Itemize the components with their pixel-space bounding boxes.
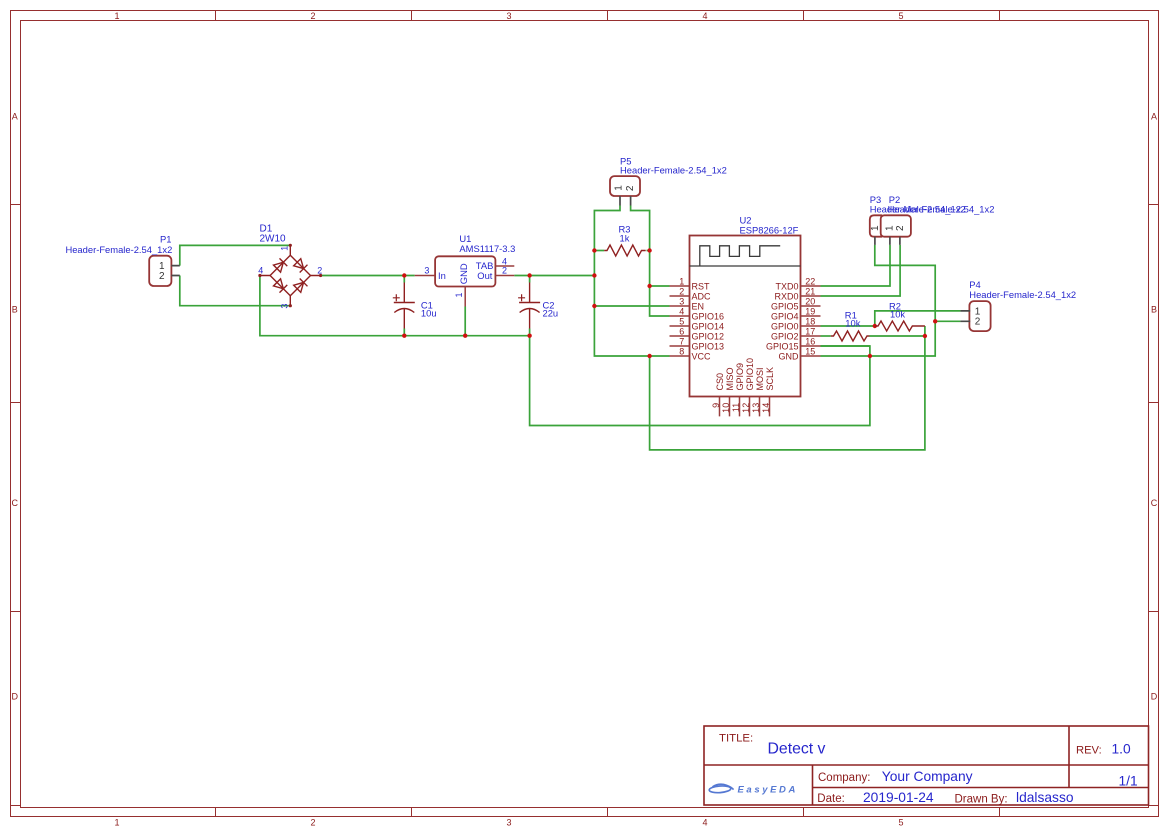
svg-text:In: In [438, 270, 446, 281]
svg-text:Out: Out [477, 270, 493, 281]
svg-text:2: 2 [502, 266, 507, 276]
svg-text:P1: P1 [160, 234, 171, 245]
wire P5.2 vertical to RST and GPIO16 [631, 206, 670, 317]
svg-text:MOSI: MOSI [755, 367, 765, 390]
junction 3V3 vertical / Out [592, 273, 596, 277]
wire V- rail: D1.4 down, bottom rail, to GND net [260, 276, 870, 426]
svg-text:16: 16 [805, 336, 815, 346]
wire P1.1 to D1.1 (AC1) [180, 245, 290, 265]
svg-text:18: 18 [805, 316, 815, 326]
svg-text:11: 11 [731, 403, 741, 412]
svg-text:B: B [1151, 305, 1157, 315]
junction GND 4-way [868, 354, 872, 358]
svg-text:GPIO15: GPIO15 [766, 341, 799, 351]
svg-text:7: 7 [679, 336, 684, 346]
svg-text:2W10: 2W10 [260, 234, 287, 245]
wire P1.2 to D1.3 (AC2) [180, 276, 290, 306]
connector P2 [870, 194, 995, 245]
wire VCC junction down and right up to R1/R2 node [650, 336, 925, 450]
junction U1 GND rail [463, 334, 467, 338]
resistor R2 [875, 301, 925, 332]
svg-text:2: 2 [679, 286, 684, 296]
svg-text:Header-Female-2.54_1x2: Header-Female-2.54_1x2 [65, 244, 172, 255]
svg-text:A: A [1151, 112, 1157, 122]
svg-text:2: 2 [310, 11, 315, 21]
svg-text:Drawn By:: Drawn By: [955, 793, 1008, 805]
wire 3V3 branch to R3 left [594, 250, 604, 252]
svg-text:GPIO10: GPIO10 [745, 358, 755, 391]
svg-text:14: 14 [761, 403, 771, 413]
wire C2 top link [529, 276, 531, 283]
wire R1 right to VCC node [870, 335, 925, 337]
junction GPIO0/R2 [873, 324, 877, 328]
junction RST [647, 284, 651, 288]
svg-text:17: 17 [805, 326, 815, 336]
svg-text:ESP8266-12F: ESP8266-12F [740, 225, 799, 236]
diode D1a (4 to 1) [273, 262, 283, 272]
wire GPIO0 junction up to P4.1 [875, 311, 961, 326]
svg-text:D: D [11, 692, 18, 702]
svg-text:1: 1 [613, 185, 624, 191]
svg-text:CS0: CS0 [715, 373, 725, 391]
svg-text:4: 4 [702, 818, 707, 828]
connector P3 [870, 194, 966, 245]
wire RXD0 to P2.2 [821, 245, 901, 296]
svg-text:2: 2 [625, 185, 636, 191]
svg-text:A: A [12, 112, 18, 122]
diode D1b (1 to 2) [294, 259, 304, 269]
wire C1 bottom link [403, 329, 405, 336]
svg-text:1: 1 [679, 276, 684, 286]
junction EN [592, 304, 596, 308]
diode D1c (4 to 3) [273, 279, 283, 289]
wire P4.2 to GND vertical [935, 320, 960, 322]
svg-text:SCLK: SCLK [765, 367, 775, 391]
wire branch to RST pin1 [650, 285, 670, 287]
svg-text:1: 1 [114, 818, 119, 828]
resistor R1 [831, 310, 870, 341]
svg-text:5: 5 [898, 818, 903, 828]
svg-text:GPIO13: GPIO13 [692, 341, 725, 351]
U2 left pin names [692, 281, 725, 361]
JUNCTION DOTS [402, 248, 937, 358]
svg-text:13: 13 [751, 403, 761, 413]
svg-text:GPIO0: GPIO0 [771, 321, 799, 331]
svg-text:3: 3 [506, 11, 511, 21]
junction R3 left [592, 248, 596, 252]
svg-text:9: 9 [711, 403, 721, 408]
svg-text:GPIO4: GPIO4 [771, 311, 799, 321]
svg-text:Header-Female-2.54_1x2: Header-Female-2.54_1x2 [888, 203, 995, 214]
wire D1.2 to U1.3 (Vin) [321, 275, 415, 277]
svg-text:Header-Female-2.54_1x2: Header-Female-2.54_1x2 [620, 164, 727, 175]
svg-text:TITLE:: TITLE: [719, 732, 753, 744]
svg-text:GPIO14: GPIO14 [692, 321, 725, 331]
wire TXD0 to P2.1 [821, 245, 891, 286]
svg-text:GPIO2: GPIO2 [771, 331, 799, 341]
wire GPIO15 to GND vertical [821, 345, 870, 347]
wire C1 top stub link [403, 276, 405, 283]
wire 3V3 branch to EN pin3 [594, 305, 669, 307]
svg-text:RST: RST [692, 281, 711, 291]
svg-text:REV:: REV: [1076, 745, 1102, 757]
junction C1/Vin [402, 273, 406, 277]
resistor R3 [604, 224, 646, 257]
WIRES [180, 206, 961, 450]
svg-text:10k: 10k [845, 317, 860, 328]
U2 right pin names [766, 281, 799, 361]
svg-text:EN: EN [692, 301, 705, 311]
wire 3V3: P5.1 down left vertical to VCC pin8 [594, 206, 669, 357]
svg-text:GPIO9: GPIO9 [735, 363, 745, 391]
svg-text:Your Company: Your Company [882, 769, 973, 784]
svg-text:2: 2 [895, 225, 906, 231]
junction R3 right [647, 248, 651, 252]
wire R2 right corner down to node [924, 326, 926, 336]
U2 bottom pin names [715, 358, 775, 391]
wire GPIO0 to R2 left junction [821, 325, 875, 327]
svg-text:1: 1 [114, 11, 119, 21]
svg-text:2: 2 [317, 266, 322, 276]
svg-text:5: 5 [679, 316, 684, 326]
wire GND pin15 to P3.1 via right vertical [821, 245, 936, 356]
svg-text:20: 20 [805, 296, 815, 306]
junction VCC pin8 [647, 354, 651, 358]
svg-text:GPIO12: GPIO12 [692, 331, 725, 341]
svg-text:2: 2 [310, 818, 315, 828]
wire GPIO2 to R1 left [821, 335, 831, 337]
U2 pin stubs [670, 286, 690, 356]
svg-text:4: 4 [702, 11, 707, 21]
svg-text:VCC: VCC [692, 351, 712, 361]
svg-text:GPIO5: GPIO5 [771, 301, 799, 311]
svg-text:Company:: Company: [818, 772, 870, 784]
svg-text:10: 10 [721, 403, 731, 413]
regulator U1 [415, 233, 516, 307]
svg-text:2: 2 [975, 317, 981, 328]
svg-text:1/1: 1/1 [1119, 773, 1138, 788]
svg-text:B: B [12, 305, 18, 315]
U2 right pin numbers [805, 276, 815, 356]
svg-text:MISO: MISO [725, 367, 735, 390]
svg-text:12: 12 [741, 403, 751, 413]
svg-text:5: 5 [898, 11, 903, 21]
wire U1.1 GND down to rail [464, 307, 466, 336]
svg-text:2019-01-24: 2019-01-24 [863, 790, 934, 805]
svg-text:22: 22 [805, 276, 815, 286]
svg-text:EasyEDA: EasyEDA [738, 785, 798, 796]
svg-text:3: 3 [424, 266, 429, 276]
capacitor C2 [518, 283, 540, 329]
junction C2/Out [527, 273, 531, 277]
svg-text:C: C [1151, 498, 1158, 508]
bridge rectifier D1 [260, 245, 321, 305]
capacitor C1 [393, 283, 415, 329]
svg-text:1: 1 [280, 246, 290, 251]
junction R1/R2/VCC node [923, 334, 927, 338]
svg-text:RXD0: RXD0 [774, 291, 798, 301]
svg-text:GPIO16: GPIO16 [692, 311, 725, 321]
svg-text:4: 4 [258, 266, 263, 276]
U2 bottom pin numbers [711, 403, 771, 413]
svg-text:10u: 10u [421, 308, 437, 319]
svg-text:C: C [11, 498, 18, 508]
svg-text:3: 3 [679, 296, 684, 306]
svg-text:GND: GND [458, 263, 469, 284]
svg-text:2: 2 [159, 271, 165, 282]
connector P4 [960, 279, 1076, 331]
junction C1 bottom [402, 334, 406, 338]
svg-text:Detect v: Detect v [768, 740, 826, 757]
svg-text:22u: 22u [543, 308, 559, 319]
svg-text:ldalsasso: ldalsasso [1016, 790, 1074, 805]
wire C2 bottom link [529, 329, 531, 336]
svg-text:TXD0: TXD0 [775, 281, 798, 291]
junction P4.2/GND [933, 319, 937, 323]
svg-text:3: 3 [280, 304, 290, 309]
connector P5 [610, 155, 727, 205]
svg-text:ADC: ADC [692, 291, 712, 301]
svg-text:Header-Female-2.54_1x2: Header-Female-2.54_1x2 [969, 289, 1076, 300]
svg-text:8: 8 [679, 346, 684, 356]
svg-text:3: 3 [506, 818, 511, 828]
svg-text:1.0: 1.0 [1112, 742, 1132, 757]
svg-text:10k: 10k [890, 309, 905, 320]
wire U1.2 Out to 3V3 vertical [514, 275, 594, 277]
svg-text:1: 1 [870, 225, 881, 231]
U2 left pin numbers [679, 276, 684, 356]
svg-text:1k: 1k [620, 233, 630, 244]
svg-text:15: 15 [805, 346, 815, 356]
svg-text:Date:: Date: [817, 793, 845, 805]
module U2 ESP8266-12F [670, 214, 821, 416]
svg-text:GND: GND [779, 351, 800, 361]
svg-text:21: 21 [805, 286, 815, 296]
EasyEDA logo [709, 784, 798, 795]
wire R3 right to net P5.2 [647, 250, 650, 252]
antenna meander [690, 246, 801, 266]
title block [704, 726, 1149, 805]
svg-text:4: 4 [679, 306, 684, 316]
svg-text:19: 19 [805, 306, 815, 316]
svg-text:D: D [1151, 692, 1158, 702]
svg-text:1: 1 [454, 292, 464, 297]
diode D1d (3 to 2) [294, 282, 304, 292]
connector P1 [65, 234, 179, 287]
junction C2 bottom corner [527, 334, 531, 338]
svg-text:AMS1117-3.3: AMS1117-3.3 [459, 243, 515, 254]
svg-text:6: 6 [679, 326, 684, 336]
